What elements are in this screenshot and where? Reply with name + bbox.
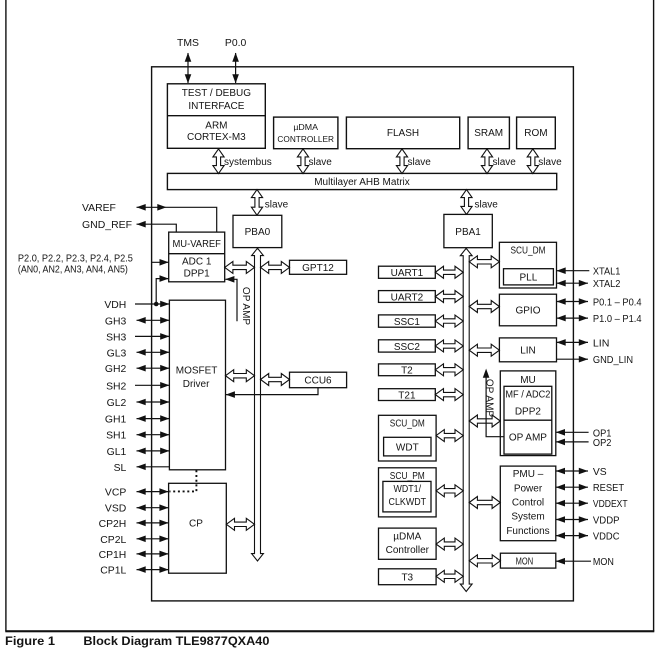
wire OP AMP stub left: [225, 276, 237, 321]
svg-text:SCU_PM: SCU_PM: [390, 471, 425, 482]
svg-text:Multilayer AHB Matrix: Multilayer AHB Matrix: [314, 177, 410, 188]
svg-text:OP AMP: OP AMP: [240, 287, 251, 325]
pin VDDEXT wire: [556, 500, 588, 507]
block T3: [379, 569, 437, 585]
bus ADC1 to PBA0: [225, 261, 255, 273]
svg-text:slave: slave: [408, 157, 432, 168]
block UART1: [379, 266, 436, 278]
svg-text:slave: slave: [493, 157, 517, 168]
block UART2: [379, 291, 436, 303]
bus UART1 to PBA1: [435, 266, 463, 278]
figure caption rule: [5, 630, 654, 632]
svg-text:GL2: GL2: [107, 398, 127, 409]
svg-text:WDT: WDT: [396, 442, 419, 453]
svg-text:PMU –: PMU –: [513, 469, 544, 480]
svg-text:SL: SL: [114, 463, 127, 474]
divider TEST-DEBUG / ARM: [167, 115, 265, 117]
pin VAREF wire: [137, 204, 217, 233]
bus UART2 to PBA1: [435, 291, 463, 303]
svg-text:(AN0, AN2, AN3, AN4, AN5): (AN0, AN2, AN3, AN4, AN5): [18, 265, 128, 276]
block WDT1/CLKWDT: [383, 481, 431, 512]
svg-text:TEST / DEBUG: TEST / DEBUG: [182, 88, 251, 99]
svg-text:GH3: GH3: [105, 316, 127, 327]
bus PBA1 to LIN: [469, 344, 499, 356]
block uDMA Controller: [379, 528, 437, 559]
pin XTAL2 wire: [557, 280, 589, 287]
svg-text:P1.0 – P1.4: P1.0 – P1.4: [593, 314, 642, 325]
svg-text:CCU6: CCU6: [304, 376, 332, 387]
block PLL: [504, 269, 554, 285]
svg-text:TMS: TMS: [177, 38, 199, 49]
svg-text:GPT12: GPT12: [302, 263, 334, 274]
svg-text:slave: slave: [265, 200, 289, 211]
pin CP1L wire: [137, 566, 169, 573]
bus uDMA Controller to PBA1: [436, 538, 463, 550]
svg-text:slave: slave: [538, 157, 562, 168]
svg-text:CONTROLLER: CONTROLLER: [277, 135, 334, 144]
pin SH1 wire: [137, 431, 170, 438]
pin P0.1-P0.4 wire: [557, 298, 589, 305]
page border left: [5, 0, 7, 631]
block uDMA CONTROLLER: [274, 117, 338, 149]
svg-text:CP: CP: [189, 519, 203, 530]
divider MU-VAREF / ADC1: [169, 253, 225, 255]
block SCU_DM PLL: [499, 242, 556, 288]
svg-text:Controller: Controller: [386, 545, 430, 556]
block SCU_PM: [379, 468, 437, 517]
svg-text:Power: Power: [514, 484, 543, 495]
pin CP2L wire: [137, 536, 169, 543]
svg-text:MON: MON: [516, 556, 534, 567]
svg-text:SH2: SH2: [106, 381, 126, 392]
svg-text:ROM: ROM: [524, 128, 547, 139]
pin GH1 wire: [137, 415, 170, 422]
svg-text:OP AMP: OP AMP: [484, 379, 495, 417]
block SSC1: [379, 315, 436, 327]
svg-text:Figure 1: Figure 1: [5, 634, 55, 648]
svg-text:WDT1/: WDT1/: [394, 484, 422, 495]
bus SCU_DM to PBA1: [436, 430, 463, 442]
svg-text:P2.0, P2.2, P2.3, P2.4, P2.5: P2.0, P2.2, P2.3, P2.4, P2.5: [18, 254, 133, 265]
svg-text:slave: slave: [475, 199, 499, 210]
svg-text:UART2: UART2: [391, 292, 424, 303]
svg-text:INTERFACE: INTERFACE: [188, 101, 244, 112]
svg-text:PBA0: PBA0: [245, 227, 271, 238]
svg-text:RESET: RESET: [593, 483, 625, 494]
bus T21 to PBA1: [435, 389, 463, 401]
bus PBA0 vertical: [252, 248, 264, 561]
svg-text:Functions: Functions: [506, 526, 549, 537]
pin P1.0-P1.4 wire: [557, 315, 589, 322]
svg-text:MF / ADC2: MF / ADC2: [505, 390, 550, 401]
pin VSD wire: [137, 504, 169, 511]
svg-text:systembus: systembus: [224, 157, 272, 168]
svg-text:SSC1: SSC1: [394, 317, 421, 328]
bus PBA0 slave arrow: [251, 190, 262, 216]
pin VS wire: [556, 468, 588, 475]
svg-text:GH2: GH2: [105, 364, 127, 375]
svg-text:OP AMP: OP AMP: [509, 432, 547, 443]
bus systembus arrow: [213, 149, 224, 174]
page border right: [653, 0, 655, 631]
pin GND_LIN wire: [557, 356, 589, 363]
svg-text:FLASH: FLASH: [387, 128, 419, 139]
svg-text:MU: MU: [520, 375, 536, 386]
bus PBA1 to MU: [469, 415, 500, 427]
bus PBA1 vertical: [460, 248, 472, 591]
svg-text:VCP: VCP: [105, 488, 126, 499]
svg-text:XTAL2: XTAL2: [593, 279, 621, 290]
wire dotted MOSFET-CP: [169, 470, 196, 491]
svg-text:SCU_DM: SCU_DM: [390, 418, 425, 429]
pin VDDP wire: [556, 516, 588, 523]
svg-text:VDDEXT: VDDEXT: [593, 499, 628, 510]
svg-text:P0.1 – P0.4: P0.1 – P0.4: [593, 298, 642, 309]
pin VCP wire: [137, 488, 169, 495]
svg-text:VS: VS: [593, 467, 607, 478]
svg-text:VSD: VSD: [105, 504, 126, 515]
pin OP2 wire: [556, 439, 589, 446]
bus SCU_PM to PBA1: [436, 485, 463, 497]
wire CCU6 to MOSFET driver: [226, 388, 318, 398]
pin GL1 wire: [137, 448, 170, 455]
svg-text:Block Diagram TLE9877QXA40: Block Diagram TLE9877QXA40: [83, 634, 269, 648]
junction dot on VDH wire: [154, 302, 159, 307]
block GPT12: [290, 260, 347, 274]
svg-text:MOSFET: MOSFET: [176, 365, 218, 376]
svg-text:MU-VAREF: MU-VAREF: [172, 239, 221, 250]
pin SL wire: [137, 464, 170, 471]
svg-text:OP2: OP2: [593, 438, 612, 449]
pin TMS wire: [185, 53, 192, 84]
bus FLASH slave arrow: [396, 149, 407, 174]
pin SH2 wire: [135, 382, 169, 389]
pin GH2 wire: [137, 365, 170, 372]
block ROM: [517, 117, 556, 149]
svg-text:DPP1: DPP1: [184, 269, 211, 280]
block MU-VAREF / ADC1 / DPP1: [169, 232, 225, 282]
block MON: [500, 553, 555, 568]
bus PBA1 to PMU: [469, 497, 500, 509]
divider DPP2 / OP AMP: [504, 419, 552, 421]
block MF/ADC2/DPP2/OPAMP: [504, 386, 552, 454]
pin CP1H wire: [137, 551, 169, 558]
block PBA1: [444, 214, 492, 247]
svg-text:CP2H: CP2H: [99, 519, 127, 530]
pin XTAL1 wire: [557, 267, 590, 274]
svg-text:UART1: UART1: [391, 268, 424, 279]
svg-text:GL3: GL3: [107, 348, 127, 359]
block SCU_DM watchdog: [379, 415, 437, 461]
bus SSC2 to PBA1: [435, 340, 463, 352]
svg-text:µDMA: µDMA: [293, 123, 318, 132]
bus PBA1 to MON: [469, 555, 500, 567]
block CCU6: [290, 372, 347, 388]
bus PBA1 to SCU_DM: [469, 256, 499, 268]
pin GND_REF wire: [137, 221, 177, 233]
svg-text:ADC 1: ADC 1: [182, 256, 212, 267]
bus SSC1 to PBA1: [435, 315, 463, 327]
block FLASH: [346, 117, 459, 149]
block T2: [379, 364, 436, 376]
wire DPP1 feedback: [156, 275, 169, 304]
block MOSFET Driver: [169, 300, 225, 470]
bus T3 to PBA1: [436, 570, 463, 582]
svg-text:SH3: SH3: [106, 332, 126, 343]
bus MOSFET to PBA0: [226, 370, 255, 382]
svg-text:GPIO: GPIO: [515, 306, 540, 317]
pin P2.x wire: [152, 259, 169, 266]
bus SRAM slave arrow: [481, 149, 492, 174]
pin LIN wire: [557, 339, 589, 346]
wire OP AMP stub right: [483, 369, 504, 437]
pin VDH wire: [135, 301, 169, 308]
svg-text:slave: slave: [309, 157, 333, 168]
bus PBA1 to GPIO: [469, 301, 499, 313]
svg-text:T21: T21: [398, 391, 416, 402]
svg-text:LIN: LIN: [520, 345, 536, 356]
pin CP2H wire: [137, 520, 169, 527]
svg-text:PBA1: PBA1: [455, 227, 481, 238]
svg-text:CP1L: CP1L: [100, 566, 126, 577]
bus T2 to PBA1: [435, 364, 463, 376]
pin GL3 wire: [137, 349, 170, 356]
block TEST/DEBUG + ARM CORTEX-M3: [167, 84, 265, 149]
bus CP to PBA0: [226, 518, 254, 530]
svg-text:GND_REF: GND_REF: [82, 220, 132, 231]
block SSC2: [379, 340, 436, 352]
pin OP1 wire: [556, 429, 589, 436]
svg-text:GL1: GL1: [107, 447, 127, 458]
svg-text:CLKWDT: CLKWDT: [389, 497, 427, 508]
pin GL2 wire: [137, 399, 170, 406]
block CP: [169, 483, 227, 573]
svg-text:PLL: PLL: [520, 273, 538, 284]
svg-text:T3: T3: [401, 572, 413, 583]
block Multilayer AHB Matrix: [167, 173, 556, 189]
svg-text:System: System: [511, 512, 544, 523]
bus ROM slave arrow: [527, 149, 538, 174]
svg-text:XTAL1: XTAL1: [593, 267, 621, 278]
svg-text:SCU_DM: SCU_DM: [511, 246, 546, 257]
svg-text:ARM: ARM: [205, 121, 227, 132]
svg-text:DPP2: DPP2: [515, 406, 542, 417]
bus PBA0 to CCU6: [261, 374, 290, 386]
svg-text:CP1H: CP1H: [99, 550, 127, 561]
bus uDMA slave arrow: [297, 149, 308, 174]
pin MON wire: [556, 558, 591, 565]
svg-text:T2: T2: [401, 366, 413, 377]
pin SH3 wire: [135, 333, 169, 340]
block MU: [500, 371, 556, 456]
block SRAM: [468, 117, 509, 149]
svg-text:VDH: VDH: [104, 300, 126, 311]
svg-text:CP2L: CP2L: [100, 535, 126, 546]
bus PBA1 slave arrow: [461, 190, 472, 215]
svg-text:MON: MON: [593, 557, 614, 568]
chip outer boundary: [152, 67, 574, 601]
block LIN: [499, 338, 556, 362]
svg-text:SRAM: SRAM: [474, 128, 503, 139]
svg-text:GND_LIN: GND_LIN: [593, 355, 633, 366]
svg-text:CORTEX-M3: CORTEX-M3: [187, 132, 246, 143]
svg-text:VDDP: VDDP: [593, 516, 620, 527]
svg-text:Driver: Driver: [183, 379, 210, 390]
svg-text:P0.0: P0.0: [225, 38, 247, 49]
pin VDDC wire: [556, 532, 588, 539]
pin P0.0 wire: [232, 53, 239, 84]
svg-text:VAREF: VAREF: [82, 203, 116, 214]
block T21: [379, 389, 436, 401]
svg-text:SSC2: SSC2: [394, 342, 421, 353]
svg-text:µDMA: µDMA: [393, 531, 421, 542]
svg-text:Control: Control: [512, 498, 544, 509]
pin RESET wire: [556, 484, 588, 491]
block PBA0: [233, 215, 282, 247]
bus PBA0 to GPT12: [261, 261, 290, 273]
svg-text:LIN: LIN: [593, 338, 610, 349]
svg-text:GH1: GH1: [105, 415, 127, 426]
svg-text:VDDC: VDDC: [593, 532, 620, 543]
block WDT: [384, 437, 431, 456]
block GPIO: [499, 294, 556, 326]
block PMU: [500, 466, 556, 541]
svg-text:SH1: SH1: [106, 431, 126, 442]
pin GH3 wire: [137, 317, 170, 324]
